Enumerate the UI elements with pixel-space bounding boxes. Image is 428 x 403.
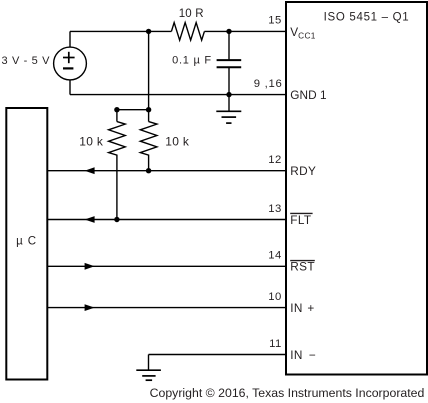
svg-text:11: 11 — [269, 338, 282, 350]
svg-text:IN +: IN + — [290, 301, 314, 315]
svg-text:10 k: 10 k — [165, 135, 190, 149]
svg-text:3 V - 5 V: 3 V - 5 V — [2, 55, 51, 67]
svg-text:ISO 5451 – Q1: ISO 5451 – Q1 — [324, 11, 410, 23]
svg-text:0.1 µ F: 0.1 µ F — [172, 55, 212, 67]
svg-text:10 k: 10 k — [79, 135, 104, 149]
svg-text:Copyright © 2016, Texas Instru: Copyright © 2016, Texas Instruments Inco… — [150, 386, 425, 400]
svg-text:10: 10 — [268, 291, 282, 303]
svg-text:10 R: 10 R — [179, 8, 204, 20]
svg-text:9 ,16: 9 ,16 — [254, 78, 283, 90]
svg-text:14: 14 — [268, 250, 282, 262]
svg-text:RST: RST — [290, 260, 315, 274]
svg-text:12: 12 — [268, 154, 282, 166]
svg-text:RDY: RDY — [290, 164, 316, 178]
svg-text:13: 13 — [268, 203, 282, 215]
svg-text:FLT: FLT — [290, 213, 311, 227]
svg-text:µ C: µ C — [16, 235, 37, 247]
svg-text:15: 15 — [268, 15, 282, 27]
svg-text:GND 1: GND 1 — [290, 88, 326, 102]
